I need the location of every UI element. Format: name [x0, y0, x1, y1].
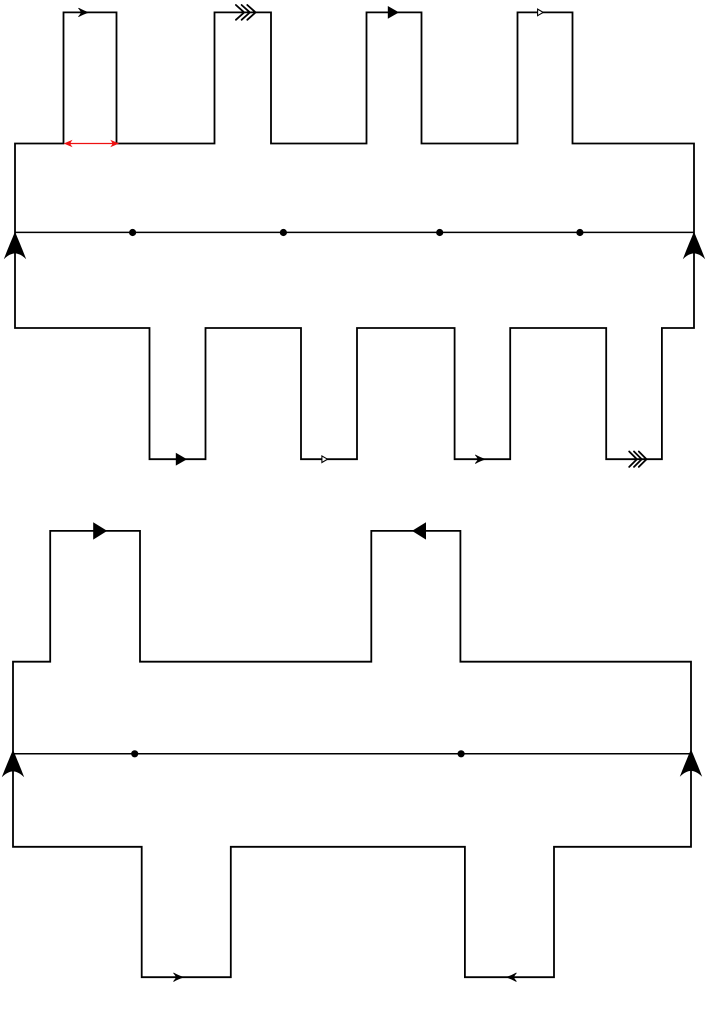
figure 1 middle horizontal line [15, 231, 694, 233]
figure 1 right edge up arrow [683, 232, 705, 259]
figure 1 comb outline [15, 12, 694, 459]
figure 2 comb outline [13, 531, 691, 977]
figure 2 top tooth1 filled triangle right [93, 522, 107, 539]
figure 2 left edge up arrow [2, 750, 24, 778]
figure 1 dot 1 [129, 229, 136, 236]
figure 1 dot 2 [280, 229, 287, 236]
figure 1 tooth3 filled triangle [388, 6, 399, 19]
figure 1 bottom tooth1 filled triangle [176, 453, 187, 466]
figure 2 bottom tooth2 small arrow left [507, 973, 517, 981]
figure 2 bottom tooth1 small arrow right [174, 973, 184, 981]
figure 2 dot 2 [458, 750, 465, 757]
figure 1 bottom tooth3 small arrow [476, 455, 486, 463]
figure 1 dot 3 [436, 229, 443, 236]
figure 2 dot 1 [131, 750, 138, 757]
figure 1 dot 4 [576, 229, 583, 236]
figure 1 tooth1 small arrow [79, 8, 89, 16]
figure 1 tooth4 open triangle [538, 9, 544, 16]
figure 1 bottom tooth4 triple chevron [629, 452, 646, 467]
figure 1 bottom tooth2 open triangle [322, 456, 328, 463]
figure 2 right edge up arrow [680, 749, 702, 777]
figure 1 left edge up arrow [4, 232, 26, 259]
figure 2 middle horizontal line [13, 753, 691, 755]
figure 1 tooth2 triple chevron [236, 5, 256, 20]
figure 1 red double-headed arrow [64, 140, 119, 148]
figure 2 top tooth2 filled triangle left [412, 522, 426, 539]
